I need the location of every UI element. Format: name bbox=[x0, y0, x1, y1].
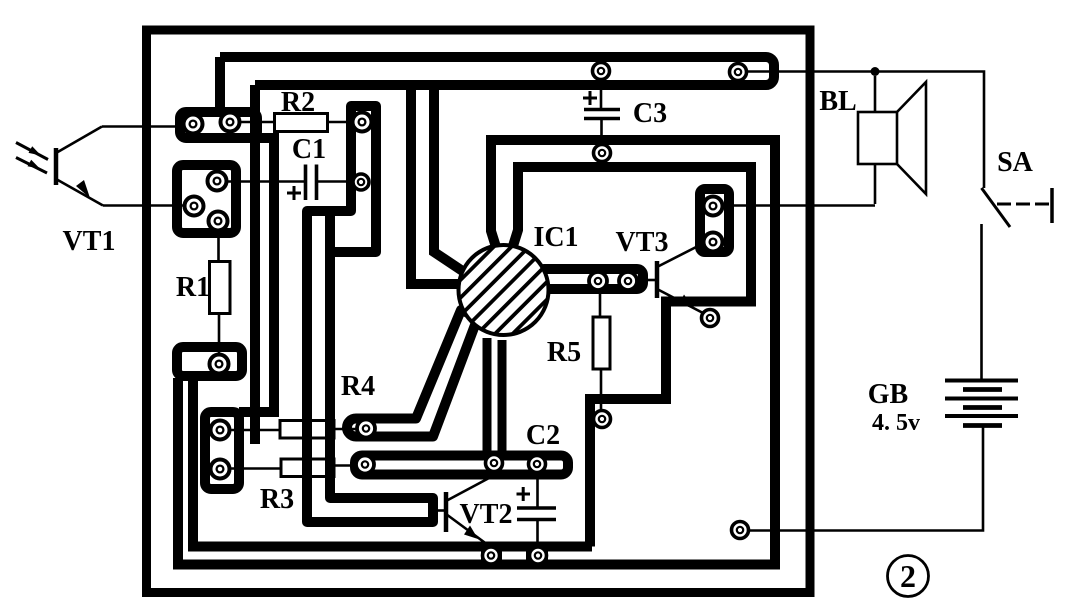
pad zone G4 outline (R4/R3 left pads) bbox=[205, 412, 239, 489]
thin wire: SA to battery plus bbox=[980, 224, 983, 379]
pad H (R3 right) bbox=[356, 456, 374, 474]
circled number 2 bbox=[888, 556, 929, 597]
resistor R3 leads bbox=[230, 466, 357, 469]
pad G (R4 right) bbox=[357, 420, 375, 438]
svg-text:VT2: VT2 bbox=[460, 499, 513, 530]
phototransistor VT1 bbox=[16, 127, 103, 206]
pad R5 bottom bbox=[594, 411, 611, 428]
resistor R5 body bbox=[593, 317, 610, 369]
svg-text:2: 2 bbox=[900, 558, 916, 594]
svg-text:R3: R3 bbox=[260, 484, 294, 515]
pad group G1 outline (R2 left pads) bbox=[180, 112, 257, 138]
pad W1 right bbox=[730, 64, 747, 81]
PCB board border bbox=[147, 30, 811, 593]
pad C3 top bbox=[593, 63, 610, 80]
solid trace: W4 rails IC1 to C2 trace bbox=[483, 338, 492, 456]
svg-text:GB: GB bbox=[868, 379, 908, 410]
pad A bbox=[184, 115, 203, 134]
svg-text:VT1: VT1 bbox=[63, 226, 116, 257]
pad C (R2 right) bbox=[353, 113, 372, 132]
resistor R1 leads bbox=[217, 230, 220, 355]
resistor R5 leads bbox=[600, 291, 601, 411]
thin wire: battery minus to board pad bbox=[750, 428, 983, 531]
thin wire: VT1 collector wire to pad bbox=[102, 125, 186, 128]
outlined trace: C1 right pad column bbox=[330, 106, 376, 252]
capacitor C3 bbox=[584, 110, 620, 119]
thin wire: VT1 emitter wire to pad bbox=[103, 204, 186, 207]
transistor VT3 bbox=[648, 243, 704, 313]
resistor R1 body bbox=[210, 262, 231, 314]
svg-text:R2: R2 bbox=[281, 87, 315, 118]
svg-text:C1: C1 bbox=[292, 134, 326, 165]
resistor R4 body bbox=[280, 421, 334, 439]
solid trace: vertical B (W1 through G1 to zone) bbox=[250, 85, 260, 444]
outlined trace: R3 right / C2 long trace bbox=[355, 456, 568, 475]
solid trace: zone extension bar bbox=[239, 407, 279, 417]
solid trace: W2 left rail bbox=[411, 90, 462, 284]
capacitor C2 bbox=[517, 508, 556, 520]
wide trace W1 (top supply trace, outlined) bbox=[220, 57, 774, 85]
VT1 pads bbox=[208, 172, 227, 191]
svg-text:C3: C3 bbox=[633, 98, 667, 129]
thin wire: main top wire from W1 pad to SA bbox=[748, 72, 984, 189]
capacitor C1 bbox=[306, 165, 317, 201]
bottom pads J K bbox=[483, 547, 500, 564]
resistor R2 body bbox=[275, 114, 328, 132]
svg-text:R4: R4 bbox=[341, 371, 375, 402]
solid trace: branch to bottom pads rect bbox=[193, 378, 592, 547]
pad VT3 emitter bbox=[702, 310, 719, 327]
resistor R4 leads bbox=[230, 429, 358, 430]
solid trace: vertical A (W1 to G1) bbox=[215, 57, 225, 114]
solid trace: W2 right rail bbox=[434, 90, 467, 274]
pads bbox=[184, 63, 749, 565]
battery GB bbox=[945, 381, 1018, 426]
pad B bbox=[221, 113, 240, 132]
thin wire: BL bottom wire to VT3 top pad bbox=[723, 204, 875, 207]
resistor R2 leads bbox=[241, 121, 353, 124]
svg-text:VT3: VT3 bbox=[616, 227, 669, 258]
pad F (R3 left) bbox=[211, 460, 230, 479]
pad C3 bottom bbox=[594, 145, 611, 162]
outlined trace: VT3 pad column bbox=[700, 189, 729, 252]
svg-text:R1: R1 bbox=[176, 272, 210, 303]
svg-text:IC1: IC1 bbox=[533, 222, 578, 253]
solid trace: big loop (IC1 top-left, C3 pad, right side, bottom, to R1 pad group) bbox=[178, 140, 775, 565]
solid trace: vertical v2 (W1 to zone ext) bbox=[250, 138, 274, 412]
outlined trace: channel C1 column down to VT2 base trace (over resistor bodies) bbox=[307, 211, 433, 522]
pad R1 bottom bbox=[210, 355, 229, 374]
outlined trace: R4 right pad + diagonal channel to IC1 bbox=[347, 310, 478, 437]
junction dot bbox=[871, 67, 880, 76]
IC1 hatched blob bbox=[440, 227, 567, 354]
svg-text:SA: SA bbox=[997, 147, 1034, 178]
pad D (C1 right) bbox=[353, 174, 369, 190]
outlined trace: IC1 right connector to VT3 bbox=[538, 269, 643, 289]
svg-text:C2: C2 bbox=[526, 420, 560, 451]
pad group G2 outline (VT1 pads) bbox=[177, 165, 236, 233]
pad group G3 outline (R1 bottom pad) bbox=[177, 347, 242, 376]
solid trace: bottom pads bulges bbox=[481, 543, 502, 568]
C2 trace pads bbox=[486, 455, 503, 472]
svg-text:R5: R5 bbox=[547, 337, 581, 368]
battery pad bbox=[732, 522, 749, 539]
svg-text:BL: BL bbox=[819, 86, 856, 117]
IC1 right pads bbox=[589, 272, 607, 290]
speaker BL bbox=[858, 76, 926, 204]
pad E (R4 left) bbox=[211, 421, 230, 440]
svg-text:4. 5v: 4. 5v bbox=[872, 410, 920, 436]
resistor R3 body bbox=[281, 459, 334, 477]
transistor VT2 bbox=[432, 478, 490, 546]
switch SA bbox=[982, 188, 1053, 227]
solid trace: T5 loop (IC1 top, VT3 emitter, C2 bottom) bbox=[513, 167, 751, 547]
VT3 pads bbox=[704, 197, 723, 216]
